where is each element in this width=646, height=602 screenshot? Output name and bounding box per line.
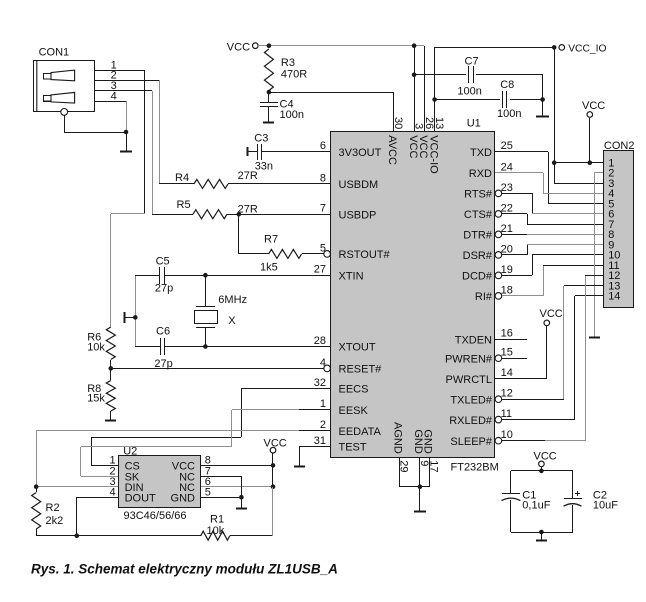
svg-text:2k2: 2k2 (46, 515, 64, 527)
wire RXLED# to CON2 pin14 (502, 296, 604, 421)
connector CON2 body (604, 151, 634, 308)
wire to CON2 pin 1 (554, 162, 604, 164)
U1 pin 20 DSR# (463, 243, 513, 262)
svg-text:SLEEP#: SLEEP# (450, 436, 492, 448)
VCC_IO terminal (559, 44, 607, 55)
U2 pin 1 CS (109, 455, 139, 473)
connector CON1 (USB-A) (34, 46, 95, 111)
U2 pin 2 SK (109, 465, 139, 483)
ground C7/C8 (536, 100, 549, 117)
VCC terminal above CON2 (582, 100, 605, 117)
wire EECS to U2 CS (91, 388, 330, 466)
U2 pin 4 DOUT (109, 486, 156, 504)
node R5/R7 junction (237, 212, 242, 217)
U1 pin 14 PWRCTL (446, 367, 513, 386)
ground U1 (414, 487, 426, 512)
node DOUT/bus (75, 533, 80, 538)
resistor R2 (32, 487, 64, 536)
wire R1 to VCC (230, 487, 273, 536)
wire TXLED# to CON2 pin13 (502, 286, 604, 400)
wire RTS# to CON2 pin6 (502, 193, 604, 214)
U1 bottom pin 17 GND (421, 429, 439, 472)
svg-text:32: 32 (314, 377, 326, 389)
wire GND pin17 (429, 457, 431, 487)
svg-text:VCC: VCC (582, 100, 605, 112)
wire U2 pin5 GND (201, 497, 241, 499)
wire R7 to RSTOUT# (302, 253, 324, 255)
svg-text:DOUT: DOUT (125, 492, 156, 504)
svg-text:93C46/56/66: 93C46/56/66 (124, 510, 187, 522)
node C1C2 gnd (539, 530, 544, 535)
svg-text:VCC-IO: VCC-IO (427, 135, 439, 174)
wire PWREN# stub (502, 358, 527, 360)
node gnd junction (418, 484, 423, 489)
ground R8 (105, 420, 116, 422)
svg-text:C6: C6 (156, 325, 170, 337)
svg-text:5: 5 (205, 486, 211, 498)
svg-text:2: 2 (320, 419, 326, 431)
U1 pin 18 RI# (475, 284, 513, 303)
wire VCC to U1 pin 26 (424, 46, 426, 131)
U2 pin 7 NC (179, 465, 211, 483)
svg-text:EESK: EESK (339, 405, 369, 417)
svg-text:TXLED#: TXLED# (450, 394, 492, 406)
U1 pin 10 SLEEP# (450, 429, 512, 448)
svg-text:RTS#: RTS# (464, 189, 493, 201)
node C7/C8 gnd (540, 97, 545, 102)
wire DTR# to CON2 pin8 (502, 234, 604, 236)
U1 pin 28 XTOUT (314, 335, 376, 354)
svg-text:21: 21 (501, 223, 513, 235)
node R3/C4/AVCC (267, 90, 272, 95)
svg-text:6: 6 (320, 140, 326, 152)
wire CON1 pin4 to ground (95, 101, 127, 132)
svg-text:U1: U1 (467, 118, 481, 130)
svg-text:14: 14 (608, 291, 620, 303)
U1 pin 22 CTS# (464, 202, 513, 221)
wire U2 pin8 VCC (201, 465, 273, 467)
svg-text:RESET#: RESET# (339, 364, 383, 376)
capacitor C4 (260, 92, 304, 122)
U1 pin 27 XTIN (314, 264, 364, 283)
wire DCD# to CON2 pin10 (502, 255, 604, 276)
wire U2 pin6 (201, 486, 273, 488)
node XTOUT/crystal (203, 344, 208, 349)
svg-text:4: 4 (111, 90, 117, 102)
svg-text:7: 7 (320, 203, 326, 215)
resistor R3 (264, 49, 307, 91)
crystal X 6MHz (195, 275, 248, 346)
svg-text:13: 13 (433, 117, 445, 129)
svg-text:12: 12 (501, 388, 513, 400)
capacitor C5 (135, 255, 330, 294)
U1 pin 24 RXD (469, 161, 513, 180)
U1 top pin 13 VCC-IO (427, 117, 445, 174)
svg-text:CON1: CON1 (39, 46, 70, 58)
ground C1C2 (536, 532, 547, 541)
svg-text:X: X (228, 315, 236, 327)
wire RI# to CON2 pin11 (502, 265, 604, 296)
svg-text:DTR#: DTR# (463, 230, 493, 242)
wire C5/C6 left rail (135, 275, 137, 346)
capacitor C7 (414, 55, 543, 97)
resistor R7 (260, 234, 302, 274)
U2 pin 5 GND (171, 486, 211, 504)
wire CON1 pin2 to R4 (95, 80, 194, 184)
svg-text:CTS#: CTS# (464, 209, 493, 221)
svg-text:R1: R1 (210, 514, 224, 526)
wire DSR# to CON2 pin9 (502, 245, 604, 256)
svg-text:VCC: VCC (540, 308, 563, 320)
svg-text:PWRCTL: PWRCTL (446, 374, 492, 386)
ground U2 (236, 497, 247, 509)
wire DOUT down (77, 497, 120, 536)
node CON2 pin1/VCC (588, 160, 593, 165)
wire C7 to gnd node (542, 75, 544, 100)
U1 pin 32 EECS (314, 377, 369, 396)
node VCC/C1C2 (539, 469, 544, 474)
U1 pin 11 RXLED# (449, 408, 512, 427)
svg-text:R7: R7 (264, 234, 278, 246)
node U2 VCC (271, 463, 276, 468)
wire to CON2 pin 3 (554, 163, 604, 184)
CON1 shield circle (61, 109, 68, 116)
svg-text:DCD#: DCD# (462, 271, 493, 283)
svg-text:0,1uF: 0,1uF (522, 499, 550, 511)
wire SLEEP# to CON2 pin12 (502, 275, 604, 441)
U1 bottom pin 29 AGND (392, 422, 410, 473)
U1 pin 6 3V3OUT (320, 140, 382, 159)
U1 pin 19 DCD# (462, 264, 513, 283)
node pin3/C7 (412, 73, 417, 78)
wire CON2 pin2 to ground (594, 173, 604, 338)
wire C1C2 top (511, 470, 573, 472)
wire VCC to CON2 pin1 (589, 118, 591, 163)
wire EESK to U2 SK (81, 410, 331, 477)
svg-text:16: 16 (501, 328, 513, 340)
svg-text:27p: 27p (155, 282, 173, 294)
node CON1 gnd junction (124, 130, 129, 135)
U1 pin 4 RESET# (320, 357, 382, 376)
svg-text:VCC_IO: VCC_IO (568, 44, 606, 55)
svg-text:R5: R5 (177, 199, 191, 211)
svg-text:22: 22 (501, 202, 513, 214)
svg-text:18: 18 (501, 284, 513, 296)
VCC terminal top left (227, 41, 258, 53)
node pin13/C8 (432, 97, 437, 102)
wire AGND pin29 (399, 457, 401, 487)
wire CON1 pin1 VBUS (95, 70, 145, 214)
svg-text:RI#: RI# (475, 291, 493, 303)
svg-text:3: 3 (413, 123, 425, 129)
svg-text:11: 11 (501, 408, 512, 420)
VCC terminal bottom right (534, 450, 557, 466)
wire TEST to ground (300, 446, 331, 466)
wire CTS# to CON2 pin7 (502, 214, 604, 225)
wire U1 pin13 to VCC_IO (435, 47, 555, 131)
svg-text:4: 4 (109, 486, 115, 498)
svg-text:30: 30 (392, 117, 404, 129)
svg-text:Rys. 1. Schemat elektryczny mo: Rys. 1. Schemat elektryczny modułu ZL1US… (31, 561, 338, 576)
U1 top pin 3 VCC (407, 123, 425, 158)
svg-text:USBDP: USBDP (339, 209, 377, 221)
svg-text:R3: R3 (281, 57, 295, 69)
U1 pin 25 TXD (470, 140, 513, 159)
svg-text:USBDM: USBDM (339, 179, 379, 191)
svg-text:10k: 10k (87, 341, 105, 353)
resistor R6 (87, 327, 115, 368)
U1 pin 8 USBDM (320, 172, 378, 191)
wire PWRCTL to VCC (495, 326, 547, 379)
wire EEDATA to U2 DIN (36, 431, 330, 488)
svg-text:R2: R2 (46, 502, 60, 514)
svg-text:15k: 15k (87, 393, 105, 405)
svg-text:CON2: CON2 (604, 140, 635, 152)
svg-text:PWREN#: PWREN# (445, 353, 493, 365)
wire bottom bus (36, 535, 201, 537)
node U2 gnd (239, 495, 244, 500)
capacitor C1 (502, 471, 551, 532)
resistor R5 (177, 199, 258, 219)
U2 pin 6 NC (179, 476, 211, 494)
svg-text:EEDATA: EEDATA (339, 426, 382, 438)
svg-text:VCC: VCC (534, 450, 557, 462)
svg-text:19: 19 (501, 264, 513, 276)
svg-text:RXLED#: RXLED# (449, 415, 493, 427)
wire RXD to CON2 pin4 (495, 173, 604, 194)
svg-text:10k: 10k (207, 525, 225, 537)
node rail/tick (133, 315, 138, 320)
wire R5 to USBDP pin 7 (227, 214, 330, 216)
resistor R8 (87, 368, 115, 420)
wire gnd bus (399, 486, 429, 488)
wire GND pin9 (419, 457, 421, 487)
U1 pin 31 TEST (314, 435, 367, 454)
U1 bottom pin 9 GND (412, 429, 430, 466)
ground CON1 (120, 132, 132, 152)
svg-text:100n: 100n (497, 108, 521, 120)
U1 pin 16 TXDEN (455, 328, 513, 347)
svg-text:100n: 100n (280, 109, 304, 121)
U1 pin 21 DTR# (463, 223, 513, 242)
node CON2 pin1/VCC_IO (552, 160, 557, 165)
svg-text:10: 10 (501, 429, 513, 441)
svg-text:AVCC: AVCC (386, 135, 398, 165)
wire VCC to U2 pin8 (272, 453, 274, 487)
VCC terminal at PWRCTL (540, 308, 563, 326)
node VCC/pin3 (412, 43, 417, 48)
svg-text:23: 23 (501, 182, 513, 194)
node EEDATA/R2 (34, 484, 39, 489)
transistor U2 93C46 body (119, 456, 201, 508)
U1 pin 1 EESK (320, 398, 369, 417)
capacitor C6 (135, 325, 330, 370)
svg-text:DSR#: DSR# (463, 250, 493, 262)
U1 pin 2 EEDATA (320, 419, 382, 438)
svg-text:C3: C3 (254, 132, 268, 144)
U1 pin 23 RTS# (464, 182, 513, 201)
svg-text:20: 20 (501, 243, 513, 255)
svg-text:VCC: VCC (227, 41, 250, 53)
svg-text:GND: GND (421, 429, 433, 454)
svg-text:1k5: 1k5 (260, 261, 278, 273)
wire RESET# net (111, 368, 324, 370)
wire TXD to CON2 pin5 (495, 152, 604, 205)
svg-text:1: 1 (320, 398, 326, 410)
node VCC/R3 (267, 43, 272, 48)
svg-text:3V3OUT: 3V3OUT (339, 147, 382, 159)
ground C4 (263, 122, 274, 124)
svg-text:XTIN: XTIN (339, 270, 364, 282)
wire shield to ground (64, 115, 126, 133)
svg-text:R4: R4 (175, 172, 189, 184)
wire TXDEN stub (495, 339, 527, 341)
svg-text:RSTOUT#: RSTOUT# (339, 249, 391, 261)
U1 pin 15 PWREN# (445, 347, 513, 366)
node U2 pin6/VCC (271, 484, 276, 489)
wire VCC to U1 pin 3 (414, 46, 416, 131)
svg-text:FT232BM: FT232BM (451, 462, 499, 474)
svg-text:14: 14 (501, 367, 513, 379)
svg-text:24: 24 (501, 161, 513, 173)
node XTIN/crystal (203, 273, 208, 278)
svg-text:XTOUT: XTOUT (339, 342, 376, 354)
svg-text:31: 31 (314, 435, 326, 447)
svg-text:470R: 470R (281, 68, 307, 80)
wire junction to R7 (239, 214, 270, 254)
svg-text:TEST: TEST (339, 442, 367, 454)
wire VCC_IO down to CON2 (554, 47, 556, 163)
node VCC_IO (552, 45, 557, 50)
U1 pin 5 RSTOUT# (320, 242, 391, 261)
wire VCC rail (258, 45, 424, 47)
svg-text:EECS: EECS (339, 384, 369, 396)
op-amp U1 FT232BM body (331, 132, 495, 458)
wire CON1 pin3 to R5 (95, 91, 193, 215)
svg-text:15: 15 (501, 347, 513, 359)
resistor R1 (201, 514, 230, 541)
wire VBUS down to R6 (110, 214, 112, 327)
svg-text:C7: C7 (465, 55, 479, 67)
U1 pin 12 TXLED# (450, 388, 512, 407)
node R6/R8/RESET# (109, 366, 114, 371)
svg-text:RXD: RXD (469, 168, 492, 180)
U2 pin 3 DIN (109, 476, 143, 494)
svg-text:6MHz: 6MHz (218, 294, 247, 306)
wire U2 pin7 to gnd (201, 476, 242, 497)
ground tick C5/C6 (125, 312, 136, 323)
svg-text:10uF: 10uF (593, 499, 618, 511)
svg-text:28: 28 (314, 335, 326, 347)
svg-text:U2: U2 (123, 446, 137, 458)
svg-text:25: 25 (501, 140, 513, 152)
wire R3 to AVCC pin 30 (269, 92, 394, 131)
wire R4 to USBDM pin 8 (228, 183, 330, 185)
svg-text:VCC: VCC (407, 135, 419, 158)
VCC terminal at U2 (264, 438, 287, 453)
ground CON2 pin2 (589, 337, 600, 339)
svg-text:27: 27 (314, 264, 326, 276)
svg-text:C8: C8 (500, 79, 514, 91)
svg-text:TXDEN: TXDEN (455, 334, 492, 346)
svg-text:GND: GND (171, 492, 196, 504)
ground TEST (294, 466, 305, 468)
U1 top pin 26 VCC (417, 117, 435, 159)
resistor R4 (175, 170, 258, 188)
svg-text:TXD: TXD (470, 147, 492, 159)
capacitor C2 (564, 471, 619, 532)
wire C1C2 bottom (511, 532, 573, 534)
capacitor C3 (248, 132, 331, 172)
svg-text:100n: 100n (457, 85, 481, 97)
svg-text:AGND: AGND (392, 422, 404, 454)
U1 pin 7 USBDP (320, 203, 377, 222)
svg-text:8: 8 (320, 172, 326, 184)
capacitor C8 (435, 79, 543, 120)
wire VCC stem (541, 467, 543, 471)
svg-text:C5: C5 (156, 255, 170, 267)
U2 pin 8 VCC (172, 455, 211, 473)
U1 top pin 30 AVCC (386, 117, 404, 165)
svg-text:33n: 33n (255, 160, 273, 172)
svg-text:26: 26 (423, 117, 435, 129)
